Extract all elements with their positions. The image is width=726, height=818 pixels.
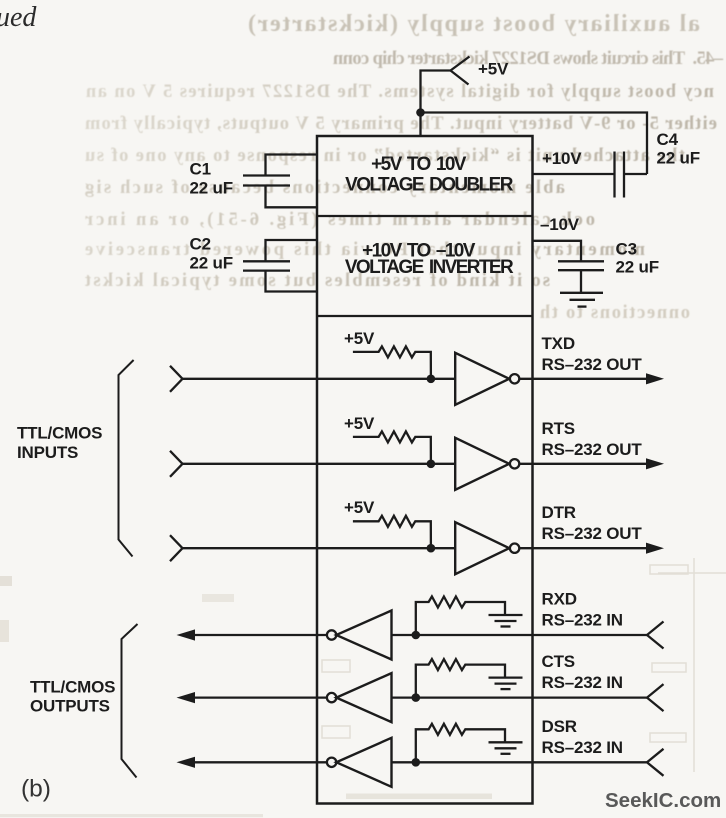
svg-text:C3: C3 (616, 240, 637, 259)
svg-text:CTS: CTS (542, 652, 575, 671)
svg-text:+5V: +5V (344, 414, 375, 433)
receiver channel CTS (177, 652, 664, 722)
resistor pull-up R (TXD) (353, 346, 431, 378)
svg-text:SeekIC.com: SeekIC.com (605, 789, 721, 812)
resistor to ground (DSR) (416, 724, 505, 763)
junction dot (412, 693, 421, 702)
label TTL/CMOS OUTPUTS (30, 678, 115, 716)
label C1 22uF (190, 160, 233, 198)
svg-text:OUTPUTS: OUTPUTS (30, 697, 110, 716)
capacitor C1 (243, 155, 317, 208)
driver channel RTS (170, 414, 664, 490)
svg-text:RS–232 IN: RS–232 IN (542, 673, 623, 692)
input connector chevron (647, 622, 664, 649)
input connector chevron (170, 535, 183, 561)
wire buffer to RS-232 out (519, 547, 648, 549)
svg-text:VOLTAGE DOUBLER: VOLTAGE DOUBLER (345, 175, 514, 196)
svg-text:(b): (b) (21, 776, 51, 803)
wire buffer to RS-232 out (519, 463, 648, 465)
wire input to buffer (183, 547, 456, 549)
label C3 22uF (616, 240, 659, 277)
svg-text:RS–232 OUT: RS–232 OUT (542, 524, 643, 543)
capacitor C3 (533, 241, 605, 293)
svg-text:TTL/CMOS: TTL/CMOS (17, 424, 102, 443)
svg-text:–45. This circuit shows DS122: –45. This circuit shows DS1227 kickstart… (332, 49, 724, 69)
wire input to buffer (183, 378, 456, 380)
bracket TTL/CMOS inputs (119, 360, 134, 557)
receiver channel DSR (177, 717, 664, 787)
svg-text:22 uF: 22 uF (190, 179, 233, 198)
node junction at +5V rail (416, 108, 425, 117)
svg-text:22 uF: 22 uF (616, 258, 659, 277)
wire RS-232 in (392, 696, 648, 698)
ghost shapes lower page (decorative) (0, 558, 726, 817)
arrowhead TTL out (177, 629, 196, 640)
label DSR RS-232 IN (542, 717, 623, 757)
svg-text:22 uF: 22 uF (190, 254, 233, 273)
buffer U1C (455, 522, 509, 574)
svg-text:RXD: RXD (542, 590, 577, 609)
label TTL/CMOS INPUTS (17, 424, 102, 463)
label TXD RS-232 OUT (542, 334, 643, 374)
wire receiver output (195, 761, 327, 763)
ground (489, 678, 523, 690)
svg-text:DSR: DSR (542, 717, 577, 736)
junction dot (427, 460, 436, 469)
arrowhead RTS out (646, 458, 664, 469)
svg-text:RS–232 IN: RS–232 IN (542, 611, 623, 630)
IC outline box (317, 136, 533, 804)
wire +5V rail to C4 (421, 113, 648, 175)
wire RS-232 in (392, 761, 648, 763)
+5V supply terminal (421, 57, 470, 113)
svg-text:+5V TO 10V: +5V TO 10V (371, 154, 467, 175)
wire input to buffer (183, 463, 456, 465)
driver channel DTR (170, 498, 664, 574)
label voltage inverter (345, 241, 514, 279)
resistor pull-up R (RTS) (353, 431, 431, 463)
svg-text:ued: ued (0, 2, 37, 33)
svg-text:–10V: –10V (540, 215, 580, 234)
label voltage doubler (345, 154, 514, 196)
wire +5V rail into box (419, 113, 421, 137)
svg-text:+5V: +5V (344, 329, 375, 348)
svg-text:either 5- or 9-V battery input: either 5- or 9-V battery input. The prim… (84, 114, 717, 134)
svg-text:22 uF: 22 uF (657, 149, 700, 168)
junction dot (427, 544, 436, 553)
receiver inverter U2C (336, 738, 391, 787)
label C4 22uF (657, 130, 700, 168)
resistor to ground (RXD) (416, 597, 505, 636)
svg-text:DTR: DTR (542, 503, 576, 522)
ground (489, 615, 523, 627)
input connector chevron (170, 366, 183, 392)
svg-text:ock calendar alarm times (Fig.: ock calendar alarm times (Fig. 6-51), or… (85, 210, 595, 230)
input connector chevron (170, 451, 183, 477)
label RXD RS-232 IN (542, 590, 623, 630)
svg-text:C2: C2 (190, 235, 211, 254)
inversion bubble (510, 544, 519, 553)
ground below C3 (560, 293, 603, 307)
svg-text:al auxiliary boost supply (kic: al auxiliary boost supply (kickstarter) (248, 11, 700, 37)
svg-text:onnections to th: onnections to th (539, 303, 690, 323)
wire buffer to RS-232 out (519, 378, 648, 380)
svg-text:RS–232 OUT: RS–232 OUT (542, 440, 643, 459)
capacitor C2 (243, 240, 317, 292)
resistor pull-up R (DTR) (353, 516, 431, 548)
buffer U1B (455, 438, 509, 490)
resistor to ground (CTS) (416, 659, 505, 698)
capacitor C4 (533, 152, 648, 198)
svg-text:RS–232 IN: RS–232 IN (542, 738, 623, 757)
divider line inverter bottom (317, 315, 533, 317)
arrowhead TXD out (646, 373, 664, 384)
svg-text:C1: C1 (190, 160, 211, 179)
arrowhead TTL out (177, 692, 196, 703)
junction dot (412, 758, 421, 767)
inversion bubble (327, 693, 336, 702)
label C2 22uF (190, 235, 233, 273)
background show-through ghost text (decorative) (84, 11, 724, 323)
divider line doubler/inverter (317, 215, 533, 217)
junction dot (427, 375, 436, 384)
receiver channel RXD (177, 590, 664, 660)
label CTS RS-232 IN (542, 652, 623, 692)
buffer U1A (455, 353, 509, 405)
receiver inverter U2B (336, 673, 391, 722)
input connector chevron (647, 684, 664, 711)
receiver inverter U2A (336, 611, 391, 660)
svg-text:+10V: +10V (542, 149, 582, 168)
svg-text:INPUTS: INPUTS (17, 443, 78, 462)
svg-text:VOLTAGE INVERTER: VOLTAGE INVERTER (345, 257, 514, 278)
svg-text:TXD: TXD (542, 334, 575, 353)
bracket TTL/CMOS outputs (122, 624, 138, 778)
svg-text:RTS: RTS (542, 419, 575, 438)
svg-text:+5V: +5V (478, 60, 509, 79)
label RTS RS-232 OUT (542, 419, 643, 459)
wire receiver output (195, 696, 327, 698)
input connector chevron (647, 749, 664, 776)
junction dot (412, 631, 421, 640)
driver channel TXD (170, 329, 664, 405)
arrowhead DTR out (646, 543, 664, 554)
wire receiver output (195, 634, 327, 636)
inversion bubble (510, 459, 519, 468)
svg-text:ncy boost supply for digital s: ncy boost supply for digital systems. Th… (85, 82, 714, 102)
inversion bubble (510, 374, 519, 383)
svg-text:RS–232 OUT: RS–232 OUT (542, 355, 643, 374)
label DTR RS-232 OUT (542, 503, 643, 543)
inversion bubble (327, 630, 336, 639)
inversion bubble (327, 758, 336, 767)
svg-text:+5V: +5V (344, 498, 375, 517)
arrowhead TTL out (177, 757, 196, 768)
svg-text:TTL/CMOS: TTL/CMOS (30, 678, 115, 697)
wire RS-232 in (392, 634, 648, 636)
svg-text:C4: C4 (657, 130, 679, 149)
ground (489, 742, 523, 754)
